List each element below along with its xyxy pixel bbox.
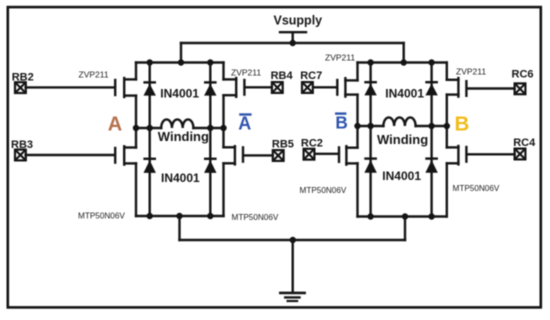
svg-text:Vsupply: Vsupply	[274, 14, 323, 28]
svg-text:IN4001: IN4001	[160, 87, 199, 101]
svg-text:IN4001: IN4001	[161, 171, 200, 185]
svg-text:RC7: RC7	[300, 70, 322, 82]
svg-text:MTP50N06V: MTP50N06V	[78, 211, 125, 220]
svg-text:RC4: RC4	[513, 137, 536, 149]
svg-text:A: A	[108, 114, 122, 136]
svg-text:MTP50N06V: MTP50N06V	[300, 186, 347, 195]
svg-text:RB5: RB5	[272, 139, 294, 151]
svg-text:IN4001: IN4001	[385, 87, 424, 101]
svg-text:MTP50N06V: MTP50N06V	[232, 213, 279, 222]
svg-text:RB3: RB3	[11, 139, 33, 151]
svg-text:ZVP211: ZVP211	[79, 70, 109, 80]
svg-text:ZVP211: ZVP211	[325, 53, 355, 63]
svg-text:ZVP211: ZVP211	[231, 67, 261, 77]
svg-text:B: B	[335, 112, 347, 132]
svg-text:Winding: Winding	[158, 129, 209, 144]
svg-text:B: B	[455, 113, 470, 136]
svg-text:A: A	[238, 113, 251, 133]
svg-text:Winding: Winding	[377, 132, 428, 147]
svg-text:RC2: RC2	[301, 138, 323, 150]
svg-text:ZVP211: ZVP211	[456, 66, 486, 76]
svg-text:MTP50N06V: MTP50N06V	[453, 184, 500, 193]
svg-text:RC6: RC6	[512, 69, 534, 81]
svg-text:RB4: RB4	[271, 70, 294, 82]
svg-text:IN4001: IN4001	[382, 169, 421, 183]
svg-text:RB2: RB2	[12, 72, 34, 84]
